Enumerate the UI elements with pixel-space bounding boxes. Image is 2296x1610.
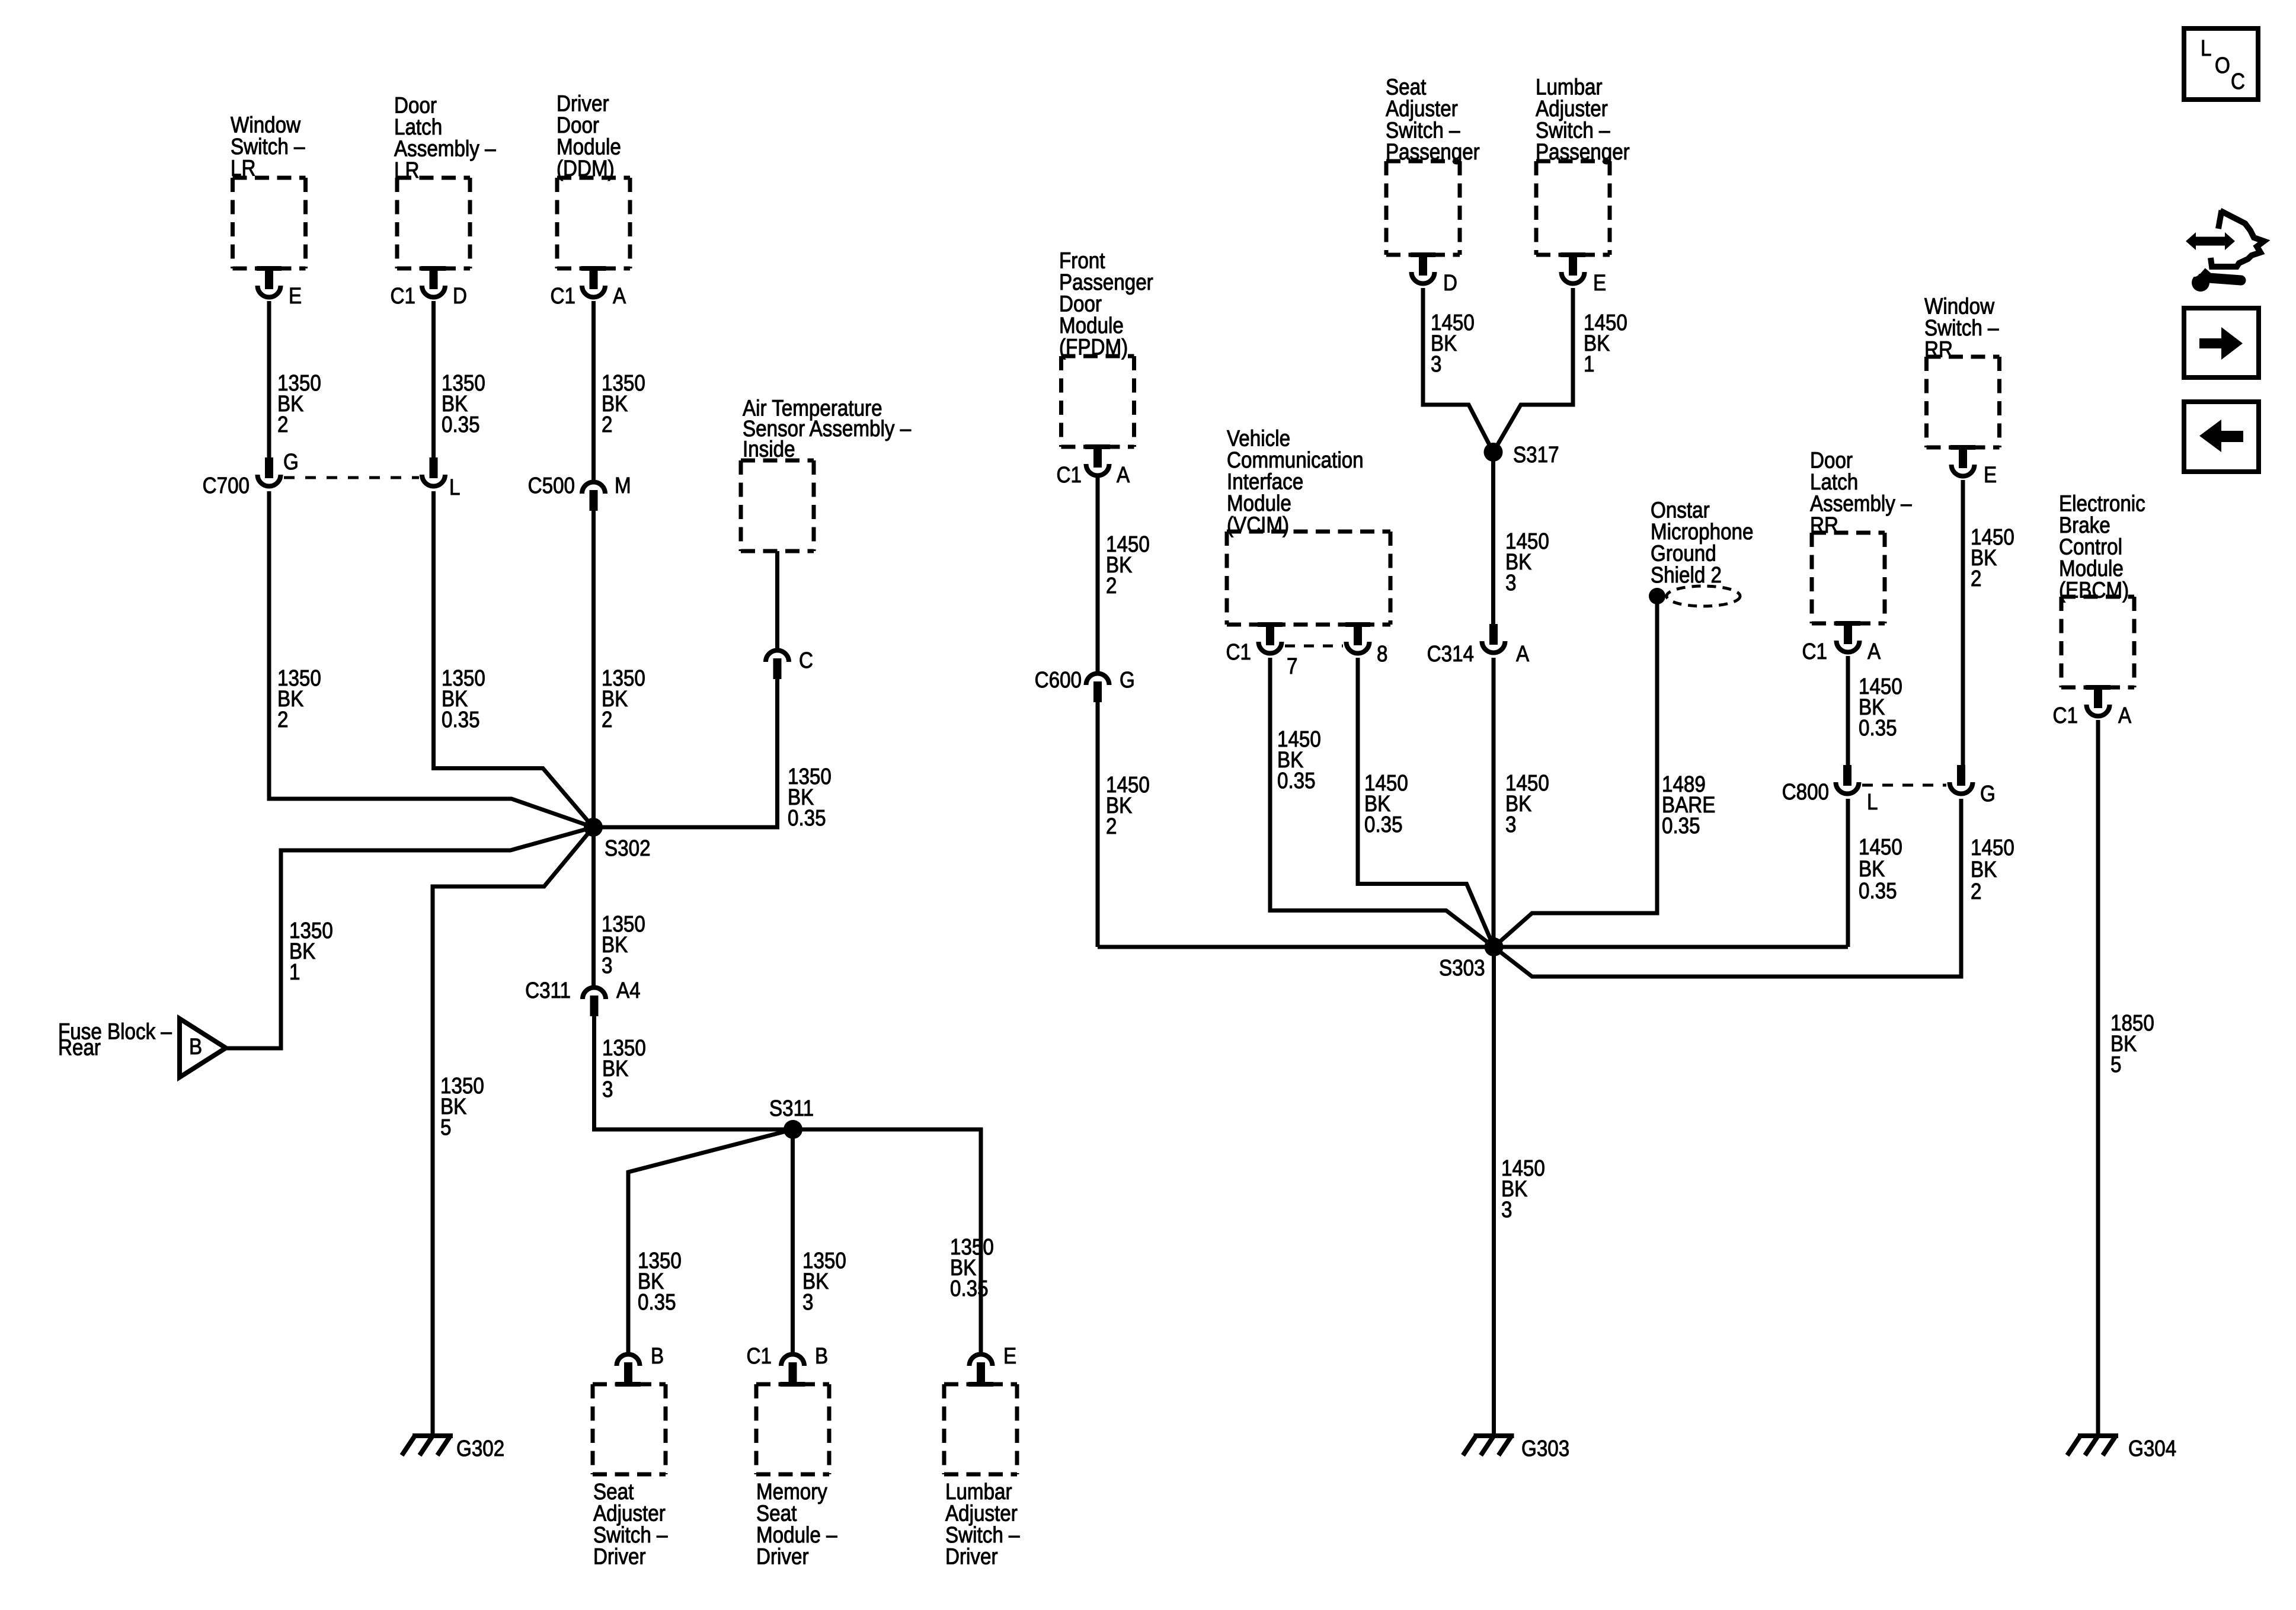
wire 1850 BK 5 (EBCM to G304) bbox=[2098, 720, 2154, 1436]
connector C1 pin B of Memory Seat Module bbox=[747, 1343, 829, 1387]
connector C1 pin A of FPDM bbox=[1057, 444, 1130, 488]
connector C1 pin A of DDM bbox=[551, 266, 626, 309]
svg-text:L: L bbox=[449, 475, 460, 500]
wire 1489 BARE 0.35 (Onstar shield to S303) bbox=[1494, 603, 1716, 947]
wire 1350 BK 2 (C500 to S302) bbox=[594, 510, 645, 827]
wire 1350 BK 2 (DDM to C500) bbox=[594, 301, 645, 480]
svg-text:G: G bbox=[1980, 781, 1996, 806]
connector pin D of Seat Adjuster Switch Passenger bbox=[1411, 252, 1457, 296]
svg-text:G303: G303 bbox=[1521, 1436, 1569, 1461]
wire 1350 BK 0.35 (C700 L to S302) bbox=[434, 491, 594, 827]
svg-text:D: D bbox=[1443, 270, 1457, 296]
svg-text:L: L bbox=[1867, 789, 1878, 815]
module Lumbar Adjuster Switch - Passenger bbox=[1536, 74, 1630, 255]
svg-text:A4: A4 bbox=[616, 978, 641, 1003]
wire 1350 BK 0.35 (Air Temp C to S302) bbox=[599, 678, 832, 831]
svg-text:S317: S317 bbox=[1513, 442, 1559, 468]
module Door Latch Assembly - RR bbox=[1810, 447, 1912, 623]
module Lumbar Adjuster Switch - Driver bbox=[944, 1384, 1020, 1569]
wire 1450 BK 3 (C314 to S303) bbox=[1494, 658, 1549, 947]
module Door Latch Assembly - LR bbox=[394, 92, 496, 268]
svg-text:E: E bbox=[1593, 270, 1606, 296]
connector C1 pin 8 of VCIM bbox=[1345, 622, 1387, 667]
connector pin E of Lumbar Adjuster Switch Passenger bbox=[1560, 252, 1606, 296]
splice S303 bbox=[1439, 937, 1504, 981]
svg-text:G304: G304 bbox=[2128, 1436, 2176, 1461]
wire 1350 BK 1 (Fuse Block B to S302) bbox=[226, 827, 593, 1048]
wire 1450 BK 2 (C600 to S303) bbox=[1098, 702, 1150, 947]
wire 1350 BK 2 (C700 G to S302) bbox=[269, 491, 593, 827]
wire 1450 BK 3 (S303 to G303) bbox=[1494, 947, 1545, 1436]
dashed connector tie C800 L-G bbox=[1862, 784, 1946, 787]
connector pin B of Seat Adjuster Switch Driver bbox=[616, 1343, 664, 1387]
module Window Switch - LR bbox=[231, 112, 306, 268]
svg-text:M: M bbox=[615, 473, 631, 498]
wire 1450 BK 0.35 (VCIM 8 to S303) bbox=[1358, 658, 1494, 947]
connector pin C of Air Temperature Sensor bbox=[766, 648, 813, 679]
connector pin E of Lumbar Adjuster Switch Driver bbox=[968, 1343, 1016, 1387]
wire 1350 BK 3 (S302 to C311) bbox=[594, 827, 645, 988]
dashed connector tie VCIM 7-8 bbox=[1285, 645, 1343, 648]
svg-text:8: 8 bbox=[1377, 641, 1387, 667]
wire 1350 BK 0.35 (S311 to Lumbar Adjuster Switch Driver) bbox=[793, 1129, 994, 1353]
svg-text:C700: C700 bbox=[203, 473, 250, 498]
svg-text:A: A bbox=[1117, 462, 1130, 488]
wire 1450 BK 0.35 (Door Latch RR to C800 L) bbox=[1848, 656, 1902, 766]
ground G303 bbox=[1463, 1436, 1570, 1461]
svg-text:C500: C500 bbox=[528, 473, 575, 498]
svg-text:C1: C1 bbox=[1802, 639, 1827, 664]
svg-text:L: L bbox=[2201, 36, 2211, 61]
connector C800 pin L bbox=[1782, 765, 1878, 815]
wire 1450 BK 3 (S317 to C314) bbox=[1494, 452, 1549, 625]
svg-text:C314: C314 bbox=[1427, 641, 1474, 667]
wire 1350 BK 5 (S302 to G302) bbox=[433, 827, 593, 1436]
module Seat Adjuster Switch - Driver bbox=[593, 1384, 668, 1569]
svg-text:A: A bbox=[1868, 639, 1881, 664]
module Electronic Brake Control Module (EBCM) bbox=[2059, 491, 2145, 687]
svg-text:B: B bbox=[651, 1343, 664, 1369]
svg-text:O: O bbox=[2215, 53, 2230, 78]
forward arrow navigation box bbox=[2184, 308, 2259, 377]
wire 1350 BK 3 (C311 to S311) bbox=[594, 1016, 794, 1129]
svg-text:G302: G302 bbox=[456, 1436, 504, 1461]
splice S317 bbox=[1484, 442, 1559, 468]
svg-text:A: A bbox=[613, 283, 626, 309]
Onstar shield terminal dot and dashed shield bbox=[1649, 586, 1740, 606]
svg-text:S303: S303 bbox=[1439, 955, 1485, 981]
connector C600 pin G bbox=[1035, 667, 1135, 702]
wire 1350 BK 0.35 (S311 to Seat Adjuster Switch Driver) bbox=[628, 1129, 793, 1353]
connector C800 pin G bbox=[1950, 765, 1996, 806]
label Fuse Block - Rear bbox=[58, 1019, 172, 1060]
main ground bus wire (C600 to C800 L through S303) bbox=[1098, 945, 1848, 949]
svg-text:B: B bbox=[815, 1343, 828, 1369]
wire 1450 BK 2 (C800 G to S303) bbox=[1494, 799, 2014, 977]
svg-text:A: A bbox=[2118, 703, 2131, 728]
connector C314 pin A bbox=[1427, 624, 1530, 667]
connector C700 pin G bbox=[203, 449, 299, 498]
vehicle data icon with double arrow and wrench bbox=[2186, 210, 2264, 292]
module Memory Seat Module - Driver bbox=[756, 1384, 837, 1569]
svg-text:E: E bbox=[1984, 462, 1997, 488]
connector C311 pin A4 bbox=[525, 978, 641, 1016]
svg-text:E: E bbox=[1003, 1343, 1016, 1369]
ground G304 bbox=[2067, 1436, 2176, 1461]
module Air Temperature Sensor Assembly - Inside bbox=[741, 395, 911, 551]
wire 1350 BK 0.35 (Door Latch LR to C700 L) bbox=[434, 301, 485, 457]
connector C1 pin A of EBCM bbox=[2053, 685, 2132, 728]
wire 1450 BK 2 (Window Switch RR to C800 G) bbox=[1963, 480, 2014, 766]
wire 1450 BK 0.35 (C800 L to S303) bbox=[1848, 799, 1902, 947]
module Window Switch - RR bbox=[1924, 293, 2000, 447]
connector C700 pin L bbox=[422, 457, 460, 500]
svg-text:C1: C1 bbox=[391, 283, 415, 309]
splice S311 bbox=[769, 1096, 814, 1139]
wire 1450 BK 3 (Seat Adjuster Passenger to S317) bbox=[1423, 288, 1494, 452]
svg-text:S311: S311 bbox=[769, 1096, 814, 1121]
wire 1450 BK 0.35 (VCIM 7 to S303) bbox=[1270, 658, 1494, 947]
module Vehicle Communication Interface Module (VCIM) bbox=[1227, 425, 1390, 625]
ground G302 bbox=[402, 1436, 504, 1461]
connector C1 pin 7 of VCIM bbox=[1226, 622, 1298, 679]
wire 1450 BK 2 (FPDM to C600) bbox=[1098, 478, 1150, 675]
back arrow navigation box bbox=[2184, 402, 2259, 472]
fuse block terminal B triangle bbox=[180, 1019, 226, 1077]
label Onstar Microphone Ground Shield 2 bbox=[1651, 497, 1753, 587]
svg-text:C800: C800 bbox=[1782, 779, 1829, 805]
connector C1 pin A of Door Latch RR bbox=[1802, 621, 1881, 664]
svg-text:C311: C311 bbox=[525, 978, 571, 1003]
wire 1350 BK 3 (S311 to Memory Seat Module) bbox=[793, 1129, 846, 1353]
svg-text:S302: S302 bbox=[605, 836, 651, 861]
module Driver Door Module (DDM) bbox=[557, 91, 630, 268]
module Seat Adjuster Switch - Passenger bbox=[1386, 74, 1480, 255]
LOC legend box bbox=[2184, 28, 2258, 100]
svg-text:D: D bbox=[453, 283, 467, 309]
splice S302 bbox=[584, 818, 651, 861]
svg-text:C: C bbox=[2231, 69, 2245, 94]
svg-text:C1: C1 bbox=[747, 1343, 772, 1369]
svg-text:B: B bbox=[189, 1034, 202, 1060]
connector pin E of Window Switch RR bbox=[1950, 445, 1997, 488]
svg-text:C: C bbox=[799, 648, 813, 673]
wire 1450 BK 1 (Lumbar Adjuster Passenger to S317) bbox=[1494, 288, 1627, 452]
svg-text:C1: C1 bbox=[2053, 703, 2078, 728]
connector C500 pin M bbox=[528, 473, 631, 511]
svg-text:G: G bbox=[1120, 667, 1135, 693]
wire 1350 BK 2 (Window Switch LR to C700) bbox=[269, 301, 321, 457]
svg-text:C1: C1 bbox=[1057, 462, 1082, 488]
svg-text:C1: C1 bbox=[1226, 639, 1251, 665]
svg-text:E: E bbox=[289, 283, 302, 309]
svg-text:C600: C600 bbox=[1035, 667, 1082, 693]
module Front Passenger Door Module (FPDM) bbox=[1059, 248, 1153, 447]
dashed connector tie C700 G-L bbox=[284, 476, 419, 479]
svg-text:G: G bbox=[283, 449, 299, 475]
connector pin E of Window Switch LR bbox=[257, 266, 302, 309]
wire from Air Temperature Sensor to connector C bbox=[775, 551, 779, 651]
svg-text:7: 7 bbox=[1287, 654, 1297, 679]
connector C1 pin D of Door Latch LR bbox=[391, 266, 467, 309]
svg-text:C1: C1 bbox=[551, 283, 575, 309]
svg-text:A: A bbox=[1516, 641, 1529, 667]
